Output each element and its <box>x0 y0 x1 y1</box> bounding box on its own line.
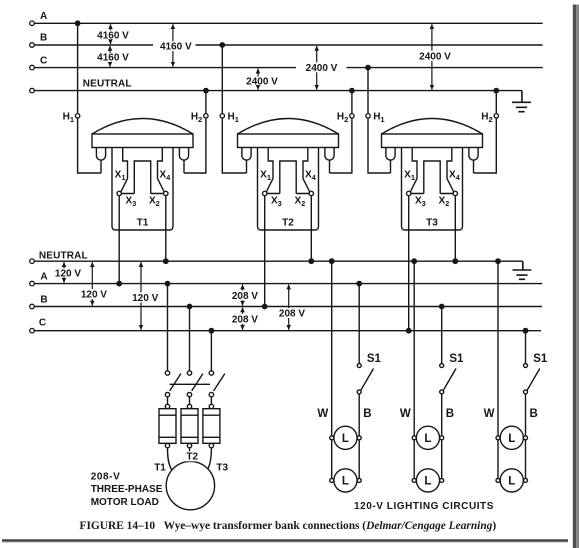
svg-text:208-V: 208-V <box>91 471 121 482</box>
motor circle <box>166 461 214 509</box>
motor tap wire phase A <box>167 284 169 371</box>
arrow 4160V A-B <box>110 24 112 30</box>
lighting circuit 2 <box>400 261 464 492</box>
secondary line A <box>34 283 542 285</box>
wire H2 tap T3 <box>474 91 497 173</box>
label 2400 V B-N <box>301 62 342 74</box>
svg-text:NEUTRAL: NEUTRAL <box>39 250 88 261</box>
T3 secondary lead X1 to line C <box>408 196 410 331</box>
switch fuse pole 3 <box>203 371 225 448</box>
svg-text:120 V: 120 V <box>55 268 81 279</box>
T3 secondary lead X2X3 to neutral <box>454 196 456 262</box>
T1 secondary lead X1 to line A <box>118 196 120 284</box>
secondary line B <box>34 306 542 308</box>
svg-text:2400 V: 2400 V <box>419 52 451 63</box>
page right rule <box>573 5 576 548</box>
voltage arrows primary <box>64 24 432 330</box>
lighting tap wire group2 B from line B <box>441 307 443 364</box>
svg-text:MOTOR LOAD: MOTOR LOAD <box>91 497 159 508</box>
svg-text:T2: T2 <box>282 218 294 229</box>
secondary line C <box>34 330 541 332</box>
svg-text:A: A <box>40 11 47 22</box>
svg-text:THREE-PHASE: THREE-PHASE <box>91 484 163 495</box>
motor tap wire phase B <box>189 307 191 371</box>
wire H1 tap T3 <box>368 68 391 173</box>
svg-text:4160 V: 4160 V <box>160 42 192 53</box>
svg-text:T1: T1 <box>137 218 149 229</box>
H terminal circles <box>75 114 498 118</box>
motor lead T1 curve <box>168 448 172 470</box>
wire H2 tap T2 <box>330 91 352 173</box>
label 120 V N-C <box>131 292 160 304</box>
lighting circuit 3 <box>484 261 548 492</box>
primary line A <box>34 22 542 24</box>
transformer T1 <box>92 119 193 231</box>
svg-text:208 V: 208 V <box>232 314 258 325</box>
switch fuse pole 2 <box>181 371 203 448</box>
motor tap wire phase C <box>210 331 212 371</box>
arrow 4160V B-C <box>109 46 111 53</box>
ground (secondary neutral) <box>513 261 532 279</box>
left terminals primary <box>30 21 35 333</box>
transformer T3 <box>382 119 483 231</box>
svg-text:B: B <box>40 294 47 305</box>
T1 secondary lead X2X3 to neutral <box>165 196 167 262</box>
left terminals secondary <box>30 259 35 264</box>
arrow 2400V B-N <box>316 46 318 90</box>
label 208 V A-C <box>278 308 307 320</box>
svg-text:NEUTRAL: NEUTRAL <box>83 79 132 90</box>
arrow 208V A-C <box>288 285 290 330</box>
svg-text:H2: H2 <box>481 112 492 125</box>
transformer T2 <box>238 119 339 231</box>
label 120 V N-B <box>80 289 108 301</box>
svg-text:T3: T3 <box>426 218 438 229</box>
primary line C <box>34 67 542 69</box>
switch tie bar <box>170 383 210 385</box>
ground (primary neutral) <box>512 91 531 112</box>
svg-text:120 V: 120 V <box>132 293 158 304</box>
svg-text:H1: H1 <box>228 112 239 125</box>
page bottom rule <box>2 539 568 541</box>
svg-text:208 V: 208 V <box>279 309 305 320</box>
svg-text:208 V: 208 V <box>232 291 258 302</box>
wire H1 tap T1 <box>78 23 101 173</box>
arrow 120V N-C <box>140 262 142 330</box>
label 208 V A-B <box>231 291 260 303</box>
wire H1 tap T2 <box>222 45 246 173</box>
label 2400 V A-N <box>417 51 453 63</box>
T2 secondary lead X2X3 to neutral <box>310 196 312 262</box>
svg-text:2400 V: 2400 V <box>246 76 278 87</box>
arrow 2400V A-N <box>431 24 433 90</box>
lighting circuit 1 <box>317 261 381 492</box>
svg-text:H2: H2 <box>191 112 202 125</box>
arrow 208V A-B <box>242 285 244 306</box>
T2 secondary lead X1 to line B <box>264 196 266 307</box>
switch fuse pole 1 <box>159 371 181 448</box>
motor lead T3 curve <box>208 448 212 470</box>
svg-text:H1: H1 <box>63 112 74 125</box>
svg-text:T1: T1 <box>154 463 166 474</box>
primary line B <box>34 44 542 46</box>
svg-text:4160 V: 4160 V <box>97 53 129 64</box>
svg-text:4160 V: 4160 V <box>97 30 129 41</box>
arrow 4160V A-C <box>172 24 174 66</box>
svg-text:120 V: 120 V <box>81 290 107 301</box>
lighting tap wire group3 B from line C <box>525 331 527 364</box>
svg-text:120-V LIGHTING CIRCUITS: 120-V LIGHTING CIRCUITS <box>354 501 494 512</box>
svg-text:T3: T3 <box>216 463 228 474</box>
arrow 120V N-A <box>63 262 65 268</box>
svg-text:C: C <box>39 317 46 328</box>
svg-text:T2: T2 <box>186 452 198 463</box>
svg-text:A: A <box>40 271 47 282</box>
label 4160 V A-C <box>156 41 195 52</box>
svg-text:H1: H1 <box>373 112 384 125</box>
arrow 120V N-B <box>91 262 93 306</box>
secondary neutral <box>34 260 523 262</box>
svg-text:B: B <box>40 33 47 44</box>
primary neutral <box>34 90 522 92</box>
motor lead T2 <box>189 448 191 462</box>
wire H2 tap T1 <box>184 91 206 173</box>
svg-text:FIGURE 14–10Wye–wye transforme: FIGURE 14–10Wye–wye transformer bank con… <box>80 520 497 532</box>
svg-text:C: C <box>40 55 47 66</box>
arrow 208V B-C <box>242 307 244 329</box>
svg-text:2400 V: 2400 V <box>306 63 338 74</box>
svg-text:H2: H2 <box>337 112 348 125</box>
label 208 V B-C <box>231 314 260 326</box>
label T2 motor <box>186 451 200 462</box>
lighting tap wire group1 B from line A <box>358 284 360 364</box>
arrow 2400V C-N <box>257 69 259 77</box>
